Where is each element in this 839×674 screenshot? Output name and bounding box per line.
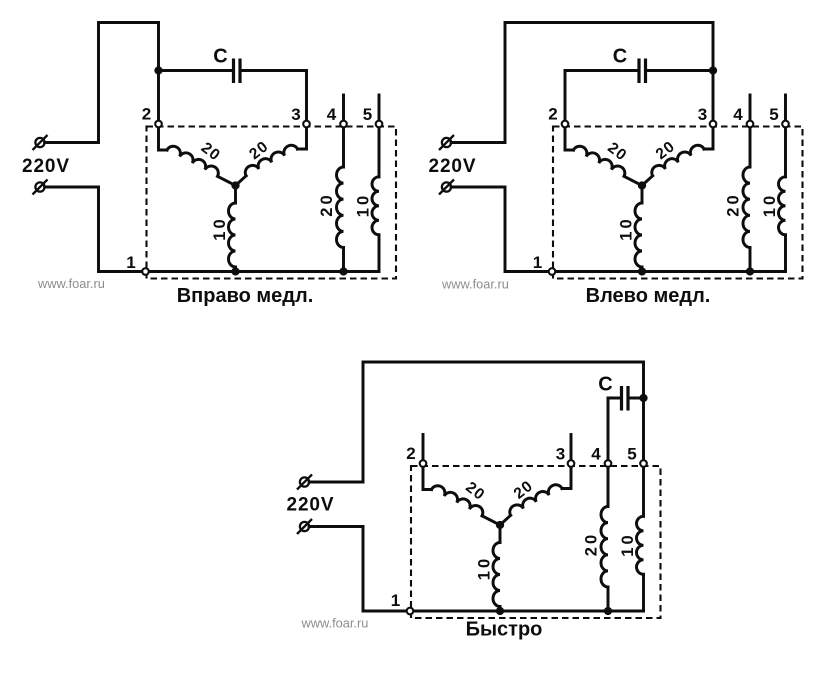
- wire: bottom terminal to node 1: [309, 527, 410, 612]
- wire: top terminal to node 2: [45, 23, 159, 143]
- terminal X3b (220V neutral): [297, 519, 312, 534]
- wire: stub above node 3: [570, 435, 573, 464]
- junction: centre winding on bus: [231, 267, 239, 275]
- wire: node 3 stub to winding: [704, 124, 713, 149]
- wire: bottom bus from node 1: [410, 610, 644, 613]
- svg-text:4: 4: [733, 105, 743, 124]
- wire: winding to star point: [218, 176, 236, 185]
- junction: speed winding on bus: [604, 607, 612, 615]
- svg-text:www.foar.ru: www.foar.ru: [37, 276, 105, 291]
- svg-text:10: 10: [619, 532, 637, 556]
- wire: stub above node 5: [378, 95, 381, 124]
- svg-text:10: 10: [761, 193, 779, 217]
- svg-text:10: 10: [618, 216, 636, 240]
- svg-text:20: 20: [318, 192, 336, 216]
- terminal X1a (220V line): [33, 135, 48, 150]
- svg-text:Влево медл.: Влево медл.: [586, 285, 711, 307]
- winding 20 (left phase): [167, 144, 221, 177]
- svg-text:5: 5: [769, 105, 778, 124]
- capacitor C: [622, 386, 629, 411]
- wire: bottom bus from node 1: [552, 270, 786, 273]
- wire: winding to bus corner: [378, 235, 381, 272]
- node 4: [340, 121, 347, 128]
- svg-text:C: C: [213, 46, 227, 68]
- junction: speed winding on bus: [339, 267, 347, 275]
- svg-text:2: 2: [142, 105, 151, 124]
- wire: bottom bus from node 1: [146, 270, 380, 273]
- wire: bottom terminal to node 1: [45, 187, 146, 272]
- svg-text:www.foar.ru: www.foar.ru: [441, 277, 509, 292]
- wire: winding to star point: [624, 176, 642, 185]
- svg-text:1: 1: [126, 253, 135, 272]
- node 4: [605, 460, 612, 467]
- wire: node 4 to winding: [607, 464, 610, 507]
- circuit 3: fast connection: [287, 362, 661, 641]
- node 1: [549, 268, 556, 275]
- wire: winding to bus: [749, 248, 752, 272]
- wire: capacitor right lead: [630, 397, 644, 400]
- wire: star point down: [641, 186, 644, 204]
- winding 20 (right phase): [649, 143, 704, 176]
- junction: capacitor tap on node-3 branch: [709, 66, 717, 74]
- junction: capacitor tap on right branch: [639, 394, 647, 402]
- junction: star point: [231, 181, 239, 189]
- junction: centre winding on bus: [638, 267, 646, 275]
- wire: stub above node 4: [342, 95, 345, 124]
- node 5: [640, 460, 647, 467]
- wire: node 3 stub to winding: [562, 464, 571, 489]
- svg-text:2: 2: [406, 444, 415, 463]
- svg-text:3: 3: [556, 445, 565, 464]
- winding 10 (centre phase): [635, 203, 642, 267]
- node 2: [155, 121, 162, 128]
- node 2: [562, 121, 569, 128]
- wire: node 2 stub to winding: [423, 464, 432, 490]
- wire: star point down: [499, 525, 502, 543]
- wire: centre winding to bus: [499, 607, 502, 612]
- node 5: [376, 121, 383, 128]
- svg-text:www.foar.ru: www.foar.ru: [301, 616, 369, 631]
- winding 20 (left phase): [574, 144, 628, 177]
- wire: node 2 stub to winding: [565, 124, 574, 150]
- wire: winding to bus: [342, 248, 345, 272]
- terminal X1b (220V neutral): [33, 180, 48, 195]
- winding 20 (right phase): [507, 482, 562, 515]
- motor winding box (dashed): [553, 127, 803, 279]
- wire: capacitor right lead: [647, 69, 713, 72]
- capacitor C: [639, 59, 646, 84]
- svg-text:5: 5: [363, 105, 372, 124]
- svg-text:3: 3: [698, 105, 707, 124]
- svg-text:10: 10: [355, 193, 373, 217]
- svg-text:220V: 220V: [22, 156, 70, 177]
- wire: winding to bus corner: [784, 235, 787, 272]
- wire: winding to star point: [500, 515, 511, 525]
- winding 20 (speed winding): [601, 507, 608, 588]
- winding 10 (speed winding): [637, 516, 644, 574]
- wire: winding to bus corner: [642, 574, 645, 611]
- svg-text:220V: 220V: [287, 495, 335, 516]
- wire: top terminal to node 3: [451, 23, 713, 143]
- node 3: [303, 121, 310, 128]
- wire: bottom terminal to node 1: [451, 187, 552, 272]
- junction: capacitor tap on node-2 branch: [154, 66, 162, 74]
- winding 10 (speed winding): [779, 177, 786, 235]
- wire: winding to star point: [236, 176, 247, 186]
- wire: top terminal across top and down right side to node 5: [309, 362, 643, 482]
- node 3: [710, 121, 717, 128]
- junction: centre winding on bus: [496, 607, 504, 615]
- svg-text:4: 4: [591, 445, 601, 464]
- svg-text:4: 4: [327, 105, 337, 124]
- svg-text:2: 2: [548, 105, 557, 124]
- terminal X2a (220V line): [439, 135, 454, 150]
- wire: capacitor left lead down to node 4: [608, 398, 620, 464]
- node 5: [782, 121, 789, 128]
- svg-text:5: 5: [627, 445, 636, 464]
- wire: stub above node 4: [749, 95, 752, 124]
- wire: node 5 to winding: [642, 464, 645, 517]
- junction: star point: [638, 181, 646, 189]
- svg-text:3: 3: [291, 105, 300, 124]
- terminal X3a (220V line): [297, 475, 312, 490]
- winding 10 (centre phase): [229, 203, 236, 267]
- svg-text:20: 20: [583, 532, 601, 556]
- wire: star point down: [234, 186, 237, 204]
- junction: speed winding on bus: [746, 267, 754, 275]
- wire: winding to star point: [482, 516, 500, 525]
- wire: stub above node 5: [784, 95, 787, 124]
- node 1: [407, 608, 414, 615]
- node 4: [747, 121, 754, 128]
- svg-text:20: 20: [725, 192, 743, 216]
- wire: node 3 stub to winding: [298, 124, 307, 149]
- wire: node 5 to winding: [378, 124, 381, 177]
- svg-text:10: 10: [476, 556, 494, 580]
- wire: winding to star point: [642, 176, 653, 186]
- svg-text:C: C: [613, 46, 627, 68]
- winding 20 (speed winding): [743, 167, 750, 248]
- wire: winding to bus: [607, 587, 610, 611]
- circuit 1: slow clockwise connection: [22, 23, 396, 308]
- node 3: [568, 460, 575, 467]
- svg-text:1: 1: [533, 253, 542, 272]
- winding 10 (centre phase): [493, 543, 500, 607]
- svg-text:Вправо медл.: Вправо медл.: [177, 285, 314, 307]
- motor winding box (dashed): [411, 466, 661, 618]
- winding 10 (speed winding): [372, 177, 379, 235]
- svg-text:1: 1: [391, 591, 400, 610]
- wire: capacitor left lead to node 2: [565, 71, 638, 125]
- junction: star point: [496, 521, 504, 529]
- winding 20 (left phase): [432, 483, 486, 516]
- wire: capacitor right lead to node 3: [242, 71, 307, 125]
- winding 20 (speed winding): [337, 167, 344, 248]
- node 2: [420, 460, 427, 467]
- wire: node 5 to winding: [784, 124, 787, 177]
- svg-text:C: C: [598, 374, 612, 396]
- svg-text:10: 10: [211, 216, 229, 240]
- winding 20 (right phase): [243, 143, 298, 176]
- capacitor C: [234, 59, 241, 84]
- svg-text:Быстро: Быстро: [466, 619, 543, 641]
- node 1: [142, 268, 149, 275]
- wire: centre winding to bus: [641, 267, 644, 272]
- terminal X2b (220V neutral): [439, 180, 454, 195]
- circuit 2: slow counter-clockwise connection: [429, 23, 803, 308]
- wire: node 4 to winding: [342, 124, 345, 167]
- svg-text:220V: 220V: [429, 156, 477, 177]
- wire: centre winding to bus: [234, 267, 237, 272]
- motor winding box (dashed): [147, 127, 397, 279]
- wire: node 2 stub to winding: [159, 124, 168, 150]
- wire: stub above node 2: [422, 435, 425, 464]
- wire: capacitor left lead: [159, 69, 233, 72]
- wire: node 4 to winding: [749, 124, 752, 167]
